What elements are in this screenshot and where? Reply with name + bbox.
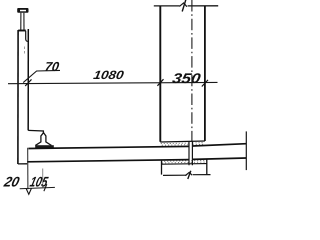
T-anchor profile (35, 133, 51, 146)
strip bottom line (161, 163, 207, 166)
beam bottom line left (27, 160, 189, 162)
bottom dimension line (20, 187, 55, 188)
tick at 105 end (44, 184, 47, 191)
mortar joint under column (stipple) (161, 143, 205, 146)
anchor bolt stem (21, 13, 24, 30)
lower column break line (163, 174, 211, 177)
svg-text:350: 350 (171, 70, 202, 86)
svg-text:1080: 1080 (92, 68, 125, 82)
label 70 underline + leader (23, 70, 60, 82)
beam top line left (28, 146, 188, 148)
hidden line inside panel (24, 47, 26, 55)
wall panel right edge lower / extension line for dim 20 (27, 148, 29, 190)
T-anchor base plate (dark) (35, 145, 54, 148)
lower column right edge (206, 160, 208, 175)
panel ledge step (28, 130, 43, 133)
extension line at 105 (faint) (42, 169, 44, 188)
lower column left edge (161, 161, 163, 175)
joint gap lines at column centre (189, 142, 192, 166)
wall panel right edge upper (27, 29, 29, 130)
wall panel top plate (18, 30, 26, 32)
column left edge (159, 6, 161, 142)
wall panel bottom (18, 163, 27, 165)
column bottom line (160, 141, 205, 142)
tick at column left edge (157, 79, 163, 86)
grout strip under beams (stipple) (161, 160, 206, 163)
anchor bolt head (17, 8, 28, 13)
beam bottom line right (193, 158, 247, 159)
break mark top (182, 0, 186, 12)
column top break line (154, 5, 218, 7)
beam right end line (245, 131, 247, 170)
tick at panel right edge (25, 79, 31, 86)
channel slot inner wall (26, 31, 28, 42)
dimension line main (y≈83) (8, 82, 218, 83)
beam top line right (193, 144, 247, 146)
break mark bottom (188, 171, 191, 179)
wall panel left edge (17, 30, 19, 164)
arrow V at extension (26, 188, 31, 194)
column center line (dash-dot) (191, 0, 193, 142)
tick at column right edge (202, 80, 208, 87)
column right edge (204, 6, 206, 141)
